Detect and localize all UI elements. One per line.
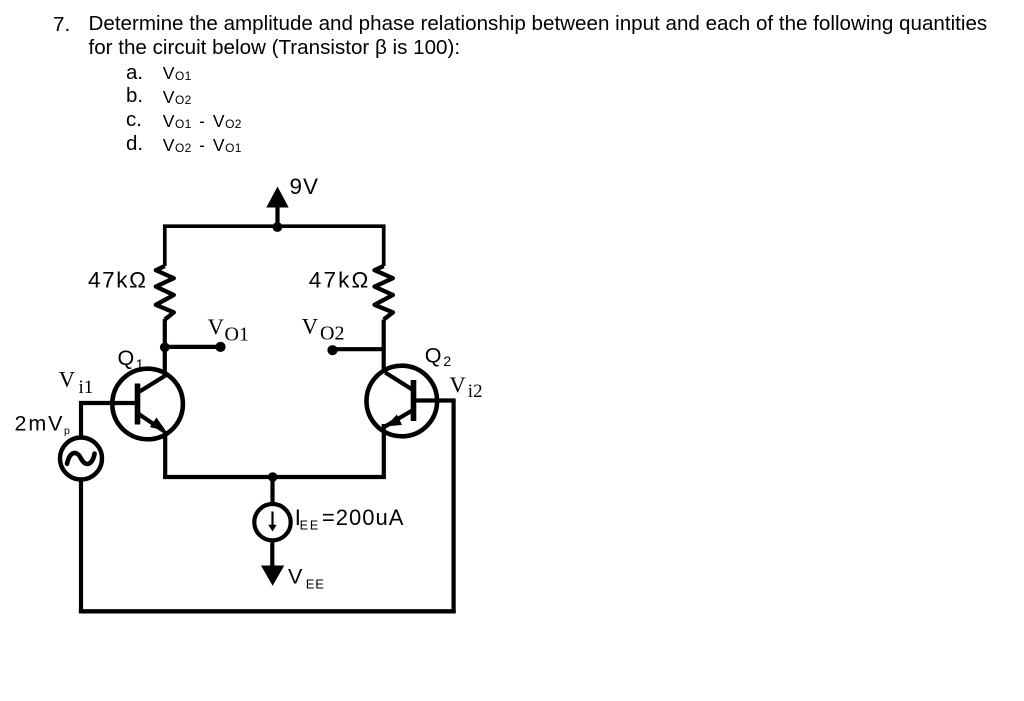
transistor Q1 [112, 369, 183, 440]
node V_O1 junction dot [160, 342, 170, 352]
resistor R1 47k (left) [156, 266, 174, 320]
svg-text:2: 2 [443, 353, 451, 369]
wire: Q2 emitter drop [382, 424, 386, 479]
wire: Vi2 drop to bottom rail [452, 399, 456, 614]
wire: current source to VEE [270, 541, 274, 566]
wire: top supply rail with drops to R1 and R2 [165, 226, 384, 266]
node V_O2 terminal dot [327, 345, 337, 355]
power VEE arrow [261, 566, 284, 586]
svg-text:=200uA: =200uA [322, 505, 404, 530]
svg-text:V: V [208, 314, 224, 339]
svg-text:9V: 9V [290, 174, 319, 199]
node: emitter rail junction dot [268, 472, 278, 482]
svg-text:V: V [302, 313, 318, 338]
wire: R1 bottom to Q1 collector [163, 319, 167, 376]
svg-text:2mV: 2mV [15, 412, 64, 436]
wire: junction to current source [270, 477, 274, 504]
svg-text:p: p [64, 425, 70, 437]
wire: source to bottom rail [79, 479, 83, 613]
node V_O1 terminal dot [215, 342, 225, 352]
svg-text:i2: i2 [468, 381, 483, 402]
svg-text:Q: Q [425, 343, 442, 367]
svg-text:i1: i1 [79, 377, 94, 398]
wire: V_O2 stub [333, 347, 384, 351]
svg-text:O1: O1 [225, 324, 249, 346]
svg-text:Q: Q [118, 346, 135, 370]
wire: Q1 base to source VS1 [81, 403, 135, 438]
svg-text:V: V [288, 565, 303, 589]
svg-text:EE: EE [306, 577, 325, 592]
power supply 9V arrow [266, 187, 288, 228]
wire: Q2 base to Vi2 [416, 398, 455, 402]
svg-text:47kΩ: 47kΩ [309, 268, 369, 293]
current source IEE [254, 504, 290, 540]
transistor Q2 [367, 366, 438, 437]
wire: V_O1 stub [165, 345, 221, 349]
svg-text:V: V [59, 367, 75, 392]
wire: common emitter rail [163, 475, 386, 479]
svg-text:EE: EE [300, 519, 321, 533]
svg-text:V: V [450, 372, 466, 397]
svg-text:O2: O2 [320, 323, 344, 345]
wire: R2 bottom to Q2 collector [382, 320, 386, 374]
svg-text:1: 1 [136, 356, 144, 372]
wire: Q1 emitter drop [163, 431, 167, 479]
resistor R2 47k (right) [375, 266, 393, 320]
wire: bottom return rail [79, 609, 456, 613]
source VS1 sine symbol [60, 438, 102, 480]
svg-text:47kΩ: 47kΩ [88, 268, 146, 293]
node: supply junction dot [273, 222, 283, 232]
